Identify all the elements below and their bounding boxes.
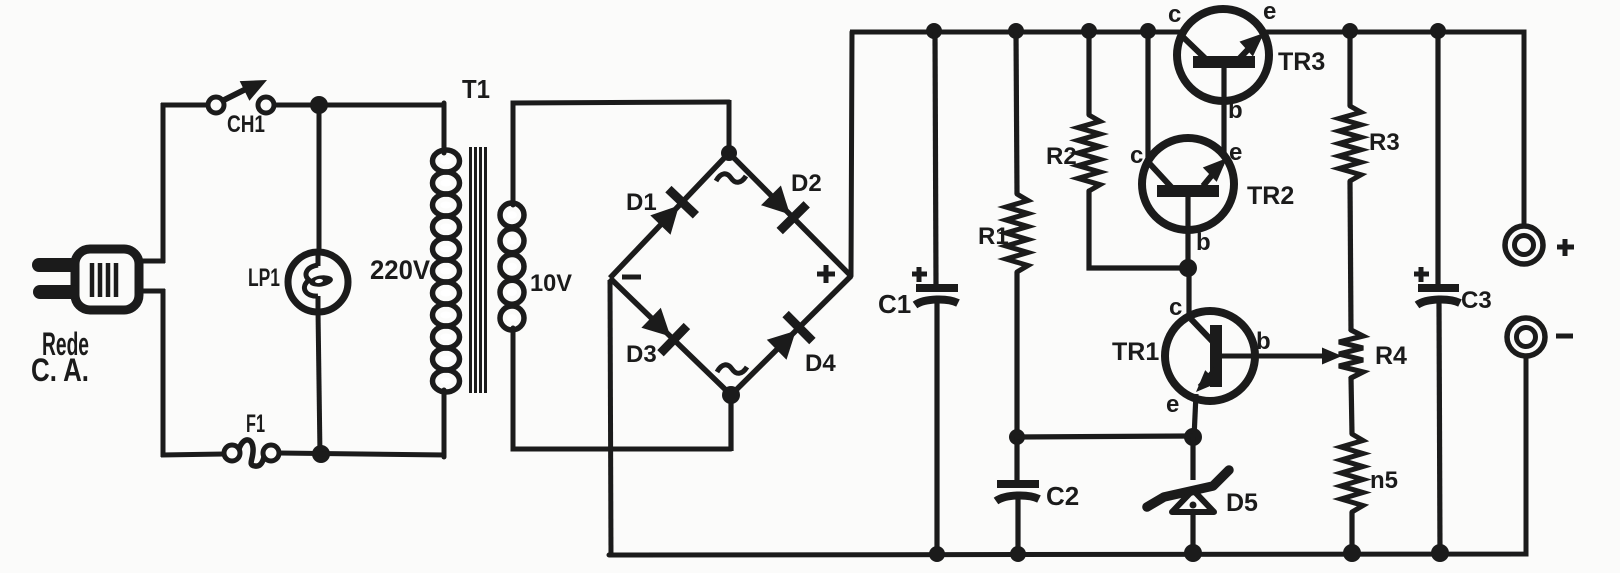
svg-text:e: e [1229,139,1242,166]
node C1 top [926,23,942,39]
node bridge top [721,145,737,161]
diode D1 [650,189,696,235]
wire secondary bottom [513,328,731,449]
wire primary bottom corner [442,390,447,457]
svg-text:C1: C1 [878,289,911,319]
label C1 plus [912,267,927,282]
label ~ top [716,174,746,182]
wire bridge minus down [610,280,611,557]
svg-text:10V: 10V [530,270,572,297]
svg-text:e: e [1263,0,1276,25]
label TR2 e [1229,139,1242,166]
node TR1 emitter junction [1184,428,1202,446]
node R1 top [1008,23,1024,39]
wire TR3 base [1221,68,1226,157]
label TR1 b [1256,328,1271,355]
transistor TR1 [1165,311,1255,401]
zener diode D5 [1147,470,1229,512]
diode D3 [641,308,687,354]
svg-text:b: b [1256,328,1271,355]
svg-text:c: c [1130,142,1143,169]
node D5 bottom [1184,544,1202,562]
svg-text:F1: F1 [246,410,265,438]
wire bottom-left to F1 [161,454,224,455]
label TR2 b [1196,229,1211,256]
wire top rail left [850,30,1180,35]
wire TR1 base to R4 [1222,354,1330,359]
wire bridge plus up [851,32,852,276]
wire C1 upper [935,32,936,286]
node lamp top [310,96,328,114]
transformer T1 primary winding [433,150,460,392]
wire R3-R4 [1350,181,1351,331]
svg-text:R4: R4 [1375,342,1407,370]
label C3 plus [1414,267,1429,282]
label D5 [1226,489,1258,517]
label D4 [805,350,836,377]
label D2 [791,170,822,197]
svg-text:D5: D5 [1226,489,1258,517]
svg-text:b: b [1228,97,1243,124]
label C1 [878,289,911,319]
wire CH1 to node [274,103,319,108]
lamp LP1 [288,252,348,312]
wire bridge edge BR [731,276,851,395]
svg-text:T1: T1 [462,74,490,104]
label C3 [1461,287,1492,314]
svg-text:C3: C3 [1461,287,1492,314]
svg-text:R3: R3 [1369,129,1400,156]
wire R1 upper [1016,32,1017,194]
label F1 [246,410,265,438]
diode D2 [761,186,807,232]
capacitor C2 [996,484,1039,501]
label + output [1557,239,1574,256]
wire D5 upper [1190,437,1195,480]
wire C2 upper [1014,437,1019,482]
node TR2 base junction [1179,259,1197,277]
wire lamp top [317,105,322,254]
label 220V [370,255,430,285]
wire plug top stub [137,259,165,264]
wire R3 upper [1347,32,1352,106]
wire C2 lower [1015,499,1020,554]
wire TR2 base [1185,196,1190,268]
label TR3 e [1263,0,1276,25]
svg-text:TR3: TR3 [1278,48,1325,76]
node bridge bottom [722,386,740,404]
label TR1 e [1166,391,1179,418]
wire lamp bottom [318,310,320,455]
node C1 bottom [929,546,945,562]
svg-text:R1: R1 [978,223,1009,250]
svg-text:C2: C2 [1046,481,1079,511]
node R2 top [1081,23,1097,39]
terminal - output [1507,318,1545,356]
resistor R3 [1339,106,1361,181]
node TR2 collector rail [1140,23,1156,39]
label R3 [1369,129,1400,156]
svg-text:D4: D4 [805,350,836,377]
svg-text:c: c [1168,1,1181,28]
label CH1 [227,111,265,138]
label TR2 c [1130,142,1143,169]
svg-text:C. A.: C. A. [31,352,89,388]
wire TR2b to TR1c [1186,268,1191,318]
wire C3 upper [1435,32,1440,286]
wire bridge edge TR [729,153,851,276]
svg-text:D1: D1 [626,189,657,216]
label D3 [626,341,657,368]
wire node to transformer [319,103,446,108]
svg-text:LP1: LP1 [248,264,280,292]
AC plug (Rede C.A.) [32,249,139,310]
resistor R1 [1006,194,1028,272]
svg-text:CH1: CH1 [227,111,265,138]
wire R5 lower [1349,512,1354,554]
label TR2 [1247,182,1294,210]
node C3 bottom [1431,544,1449,562]
transistor TR2 [1142,138,1234,230]
wire TR2 collector [1145,32,1150,162]
label D1 [626,189,657,216]
node C2 bottom [1010,546,1026,562]
label - output [1556,334,1573,339]
label + at bridge right [817,265,835,283]
wire bridge top lead [727,100,732,155]
svg-text:D2: D2 [791,170,822,197]
svg-text:TR1: TR1 [1112,338,1159,366]
switch CH1 [208,80,274,113]
terminal + output [1505,226,1543,264]
wire R4-R5 [1351,377,1352,434]
label ~ bottom [717,365,747,373]
wire R2 upper [1086,32,1091,115]
node lamp bottom [312,445,330,463]
potentiometer R4 [1339,330,1363,378]
label R2 [1046,143,1077,170]
svg-text:D3: D3 [626,341,657,368]
svg-text:R2: R2 [1046,143,1077,170]
label TR3 [1278,48,1325,76]
svg-text:b: b [1196,229,1211,256]
diode D4 [767,314,813,360]
label T1 [462,74,490,104]
wire bottom rail [609,356,1526,555]
fuse F1 [224,440,279,466]
arrow into R4 wiper [1322,348,1342,365]
label TR3 b [1228,97,1243,124]
transistor TR3 [1177,9,1269,101]
wire secondary top [513,102,729,205]
resistor R2 [1078,115,1100,191]
svg-text:TR2: TR2 [1247,182,1294,210]
wire plug bottom stub [137,289,165,294]
wire left vertical upper [161,103,166,263]
node R5 bottom [1343,544,1361,562]
wire C1 lower [934,303,939,554]
wire TR1 emitter [1194,394,1196,438]
wire left vertical lower [161,289,166,457]
capacitor C1 [915,288,958,305]
node R1-C2 [1009,429,1025,445]
transformer core [471,147,486,393]
wire top-left to CH1 [161,103,209,108]
label TR3 c [1168,1,1181,28]
wire emitter to R1 node [1017,436,1193,437]
wire C3 lower [1439,303,1440,554]
wire F1 to transformer [279,453,446,455]
label - at bridge left [622,275,641,280]
label C2 [1046,481,1079,511]
svg-text:c: c [1169,294,1182,321]
node R3 top [1342,23,1358,39]
wire bridge bottom lead [728,395,733,451]
wire D5 lower [1190,513,1195,554]
resistor R5 [1341,434,1363,512]
node C3 top [1430,23,1446,39]
label TR1 c [1169,294,1182,321]
wire R2 lower [1089,191,1186,268]
capacitor C3 [1417,288,1460,305]
label LP1 [248,264,280,292]
wire bridge edge TL [610,153,729,278]
label Rede C. A. [31,326,89,388]
label 10V [530,270,572,297]
svg-text:n5: n5 [1370,467,1398,494]
wire bridge edge BL [610,278,731,395]
label R1 [978,223,1009,250]
wire R1 lower [1014,272,1019,437]
label TR1 [1112,338,1159,366]
label R5 [1370,467,1398,494]
label R4 [1375,342,1407,370]
wire top rail right [1266,32,1524,226]
transformer T1 secondary winding [500,203,524,330]
svg-text:e: e [1166,391,1179,418]
wire primary top corner [442,103,447,153]
svg-text:220V: 220V [370,255,430,285]
